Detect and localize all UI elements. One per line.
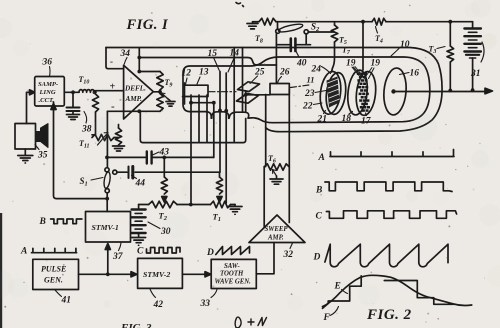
- svg-text:LING: LING: [39, 89, 56, 96]
- wire sampler out: [64, 91, 79, 93]
- wire 26 down-left: [265, 95, 267, 119]
- node T9 mid / amp out: [153, 91, 160, 93]
- svg-text:41: 41: [61, 296, 72, 306]
- disc 21 ellipses: [318, 70, 348, 116]
- wire outer-loop top wrap around tube: [106, 48, 442, 132]
- gun internal wire: [191, 102, 214, 104]
- wire pulse out: [79, 273, 134, 275]
- svg-text:D: D: [206, 248, 214, 258]
- pot T9 wiper+ground: [162, 93, 168, 99]
- switch S2: [278, 23, 304, 34]
- svg-text:17: 17: [361, 117, 372, 127]
- paper mottle: [213, 171, 239, 197]
- wire fb drop from top edge: [138, 48, 140, 72]
- block PULSE GEN: [33, 259, 79, 289]
- svg-text:AMP.: AMP.: [267, 235, 284, 242]
- wire S2 contact to T5 line: [305, 34, 307, 45]
- battery 30: [138, 205, 140, 209]
- svg-text:21: 21: [317, 115, 328, 125]
- resistor T3: [449, 22, 451, 46]
- wire sampler bottom to S1 rail: [54, 102, 108, 199]
- waveform C small: [147, 248, 181, 254]
- op-amp U34 triangle: [124, 65, 154, 119]
- node T3 top: [448, 20, 452, 24]
- curve F staircase: [323, 276, 454, 309]
- rail under tube: [140, 111, 245, 142]
- node mesh supply: [361, 20, 365, 24]
- svg-text:FIG. 3: FIG. 3: [120, 322, 152, 328]
- svg-text:38: 38: [81, 125, 92, 135]
- wire gun drop 2: [198, 95, 200, 143]
- svg-text:AMP.: AMP.: [125, 95, 143, 103]
- resistor T5: [334, 22, 336, 25]
- ground (mic): [24, 149, 26, 155]
- svg-text:44: 44: [135, 179, 146, 189]
- capacitor 44: [128, 167, 130, 179]
- svg-text:.CCT.: .CCT.: [39, 97, 55, 104]
- battery 31: [472, 22, 474, 28]
- pot T2: [139, 204, 149, 206]
- wire plate drop b: [225, 112, 227, 203]
- wire sweep right: [288, 120, 290, 223]
- wire sweep left: [264, 118, 266, 227]
- svg-text:B: B: [39, 217, 46, 227]
- wire plates 25 down: [245, 92, 247, 113]
- svg-text:FIG. 2: FIG. 2: [366, 307, 412, 323]
- ground (T1): [234, 205, 236, 207]
- paper specks: [120, 178, 121, 179]
- waveform A left: [32, 248, 77, 252]
- svg-text:STMV-2: STMV-2: [143, 270, 170, 279]
- wire mesh drop: [362, 22, 364, 70]
- waveform B left: [51, 219, 82, 224]
- wire gun left drop: [190, 95, 192, 205]
- svg-text:FIG. I: FIG. I: [126, 17, 170, 33]
- block 36 sampling cct: [35, 77, 65, 107]
- wire top rail: [276, 21, 372, 23]
- svg-text:PULSE: PULSE: [41, 265, 66, 274]
- svg-text:DEFL.: DEFL.: [124, 85, 146, 93]
- plate pair 14: [233, 48, 235, 113]
- microphone 35: [15, 124, 36, 150]
- svg-text:24: 24: [311, 65, 322, 75]
- svg-text:GEN.: GEN.: [44, 276, 63, 285]
- svg-text:-: -: [110, 57, 113, 67]
- wire to T11: [92, 112, 96, 135]
- block SAW-TOOTH WAVE GEN: [211, 259, 256, 288]
- svg-text:A: A: [20, 247, 27, 257]
- svg-text:16: 16: [410, 69, 420, 79]
- cut text top edge: [236, 3, 244, 7]
- electrode 26: [270, 84, 289, 95]
- wire T5 to electrode 24: [332, 42, 335, 72]
- wire STMV1 top: [106, 199, 108, 212]
- waveform D small: [216, 247, 250, 255]
- wire plate feed: [139, 58, 276, 66]
- wire cap43 row: [107, 156, 146, 158]
- op-amp sweep 32: [249, 215, 305, 243]
- svg-text:35: 35: [37, 151, 48, 161]
- capacitor 40: [276, 33, 290, 45]
- svg-text:C: C: [316, 212, 323, 222]
- mesh elements 19: [357, 73, 360, 76]
- svg-text:36: 36: [42, 58, 53, 68]
- S1 side contact: [113, 170, 117, 174]
- svg-text:19: 19: [346, 59, 356, 69]
- block STMV-1: [86, 212, 131, 243]
- svg-text:A: A: [318, 153, 325, 163]
- svg-text:E: E: [334, 282, 341, 292]
- wire minus-input to S1: [106, 111, 108, 167]
- svg-text:SAMP-: SAMP-: [38, 81, 58, 88]
- svg-text:C: C: [137, 247, 144, 257]
- node T10 out: [94, 91, 96, 93]
- block STMV-2: [138, 258, 183, 288]
- svg-text:37: 37: [112, 252, 124, 262]
- switch S1: [105, 168, 109, 172]
- svg-text:40: 40: [296, 59, 307, 69]
- resistor T9 upper: [139, 71, 160, 73]
- svg-text:26: 26: [279, 68, 290, 78]
- svg-text:15: 15: [208, 49, 218, 59]
- svg-text:33: 33: [200, 299, 211, 309]
- capacitor 43: [146, 152, 148, 164]
- svg-text:34: 34: [120, 49, 131, 59]
- ground (top-left supply): [247, 23, 258, 25]
- wire minus input feedback: [107, 110, 160, 112]
- svg-text:18: 18: [342, 114, 352, 124]
- svg-text:42: 42: [153, 300, 164, 310]
- svg-text:13: 13: [199, 68, 209, 78]
- waveform C: [326, 211, 456, 219]
- CRT envelope 10: [183, 57, 430, 123]
- disc 17/18 ellipses: [346, 69, 378, 117]
- wire cap44 row: [117, 171, 127, 173]
- plates 25 parallelograms: [238, 82, 260, 92]
- wire 26 right down: [288, 89, 290, 120]
- resistor above T2: [163, 157, 165, 177]
- wire outer-loop left into amp: [106, 48, 124, 69]
- pot T1: [211, 201, 231, 208]
- resistor 38b vertical: [92, 94, 98, 112]
- beam spot + axis out: [391, 89, 395, 93]
- wire mic to sampler: [27, 92, 31, 123]
- svg-text:43: 43: [159, 148, 170, 158]
- svg-text:12: 12: [182, 69, 192, 79]
- cut text bottom 2: [235, 317, 266, 328]
- wire stmv2 out: [182, 273, 206, 275]
- disc hatched target 23: [327, 77, 340, 108]
- ground (T6): [276, 176, 278, 179]
- page edge bar: [0, 213, 2, 328]
- wire gun node drop: [213, 103, 215, 158]
- resistor above T1: [219, 172, 221, 177]
- pot T6: [264, 164, 289, 170]
- wire plate drop c: [233, 112, 235, 143]
- inductor T10: [79, 90, 94, 93]
- resistor T4 (series in rail): [372, 18, 386, 25]
- waveform A: [330, 150, 454, 157]
- curve E envelope: [323, 275, 472, 306]
- plate pair 15: [219, 72, 221, 112]
- svg-text:10: 10: [400, 40, 410, 50]
- waveform B: [325, 182, 452, 192]
- svg-text:D: D: [313, 253, 321, 263]
- beam axis dashed: [209, 91, 236, 93]
- wire plate drop a: [219, 112, 221, 172]
- screen 16: [382, 67, 408, 116]
- waveform D: [325, 244, 448, 267]
- resistor T8: [259, 18, 276, 25]
- wire plus input: [94, 90, 124, 92]
- svg-text:F: F: [323, 313, 331, 323]
- resistor T9 lower: [157, 94, 163, 112]
- svg-text:SAW-: SAW-: [224, 263, 240, 270]
- wire saw out to sweep: [256, 243, 274, 274]
- svg-text:31: 31: [470, 69, 481, 79]
- capacitor 38 + ground: [72, 92, 74, 107]
- resistor T11b + ground: [114, 137, 119, 139]
- svg-text:19: 19: [371, 59, 381, 69]
- cathode 12: [184, 83, 186, 104]
- grid 13: [183, 85, 209, 96]
- wire gun drop 3: [206, 95, 208, 143]
- pot T11: [92, 134, 114, 140]
- svg-text:32: 32: [283, 250, 294, 260]
